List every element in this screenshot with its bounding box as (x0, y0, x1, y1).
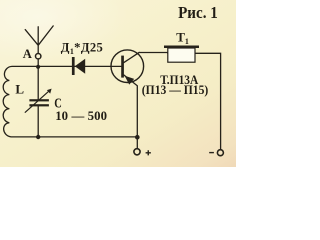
svg-text:(П13 — П15): (П13 — П15) (142, 82, 209, 97)
svg-text:Рис. 1: Рис. 1 (178, 3, 218, 22)
svg-text:А: А (23, 47, 32, 61)
svg-text:L: L (15, 82, 24, 97)
svg-text:Т1: Т1 (176, 30, 189, 47)
svg-text:Д1*Д25: Д1*Д25 (61, 41, 103, 56)
svg-text:10 — 500: 10 — 500 (55, 109, 107, 123)
